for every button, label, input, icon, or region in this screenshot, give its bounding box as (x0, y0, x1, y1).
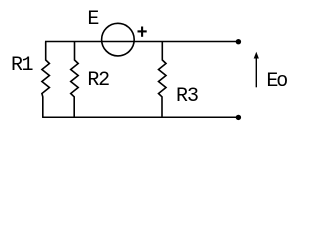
voltage source E (circle) (102, 23, 135, 56)
label Eo (output voltage) (266, 70, 278, 93)
label R3 (176, 85, 188, 108)
polarity + sign of source E (138, 27, 147, 37)
wire: bottom rail from left corner to output node (42, 116, 238, 118)
label R1 (11, 54, 23, 77)
resistor R3 (159, 42, 167, 118)
label E (source) (87, 8, 99, 31)
label R2 (87, 69, 99, 92)
wire: top rail from left corner to output node (45, 41, 238, 43)
resistor R2 (71, 42, 79, 118)
resistor R1 (42, 42, 50, 118)
node: output terminal top dot (236, 39, 241, 44)
arrow: output voltage Eo direction (upward) (254, 52, 259, 88)
node: output terminal bottom dot (236, 115, 241, 120)
